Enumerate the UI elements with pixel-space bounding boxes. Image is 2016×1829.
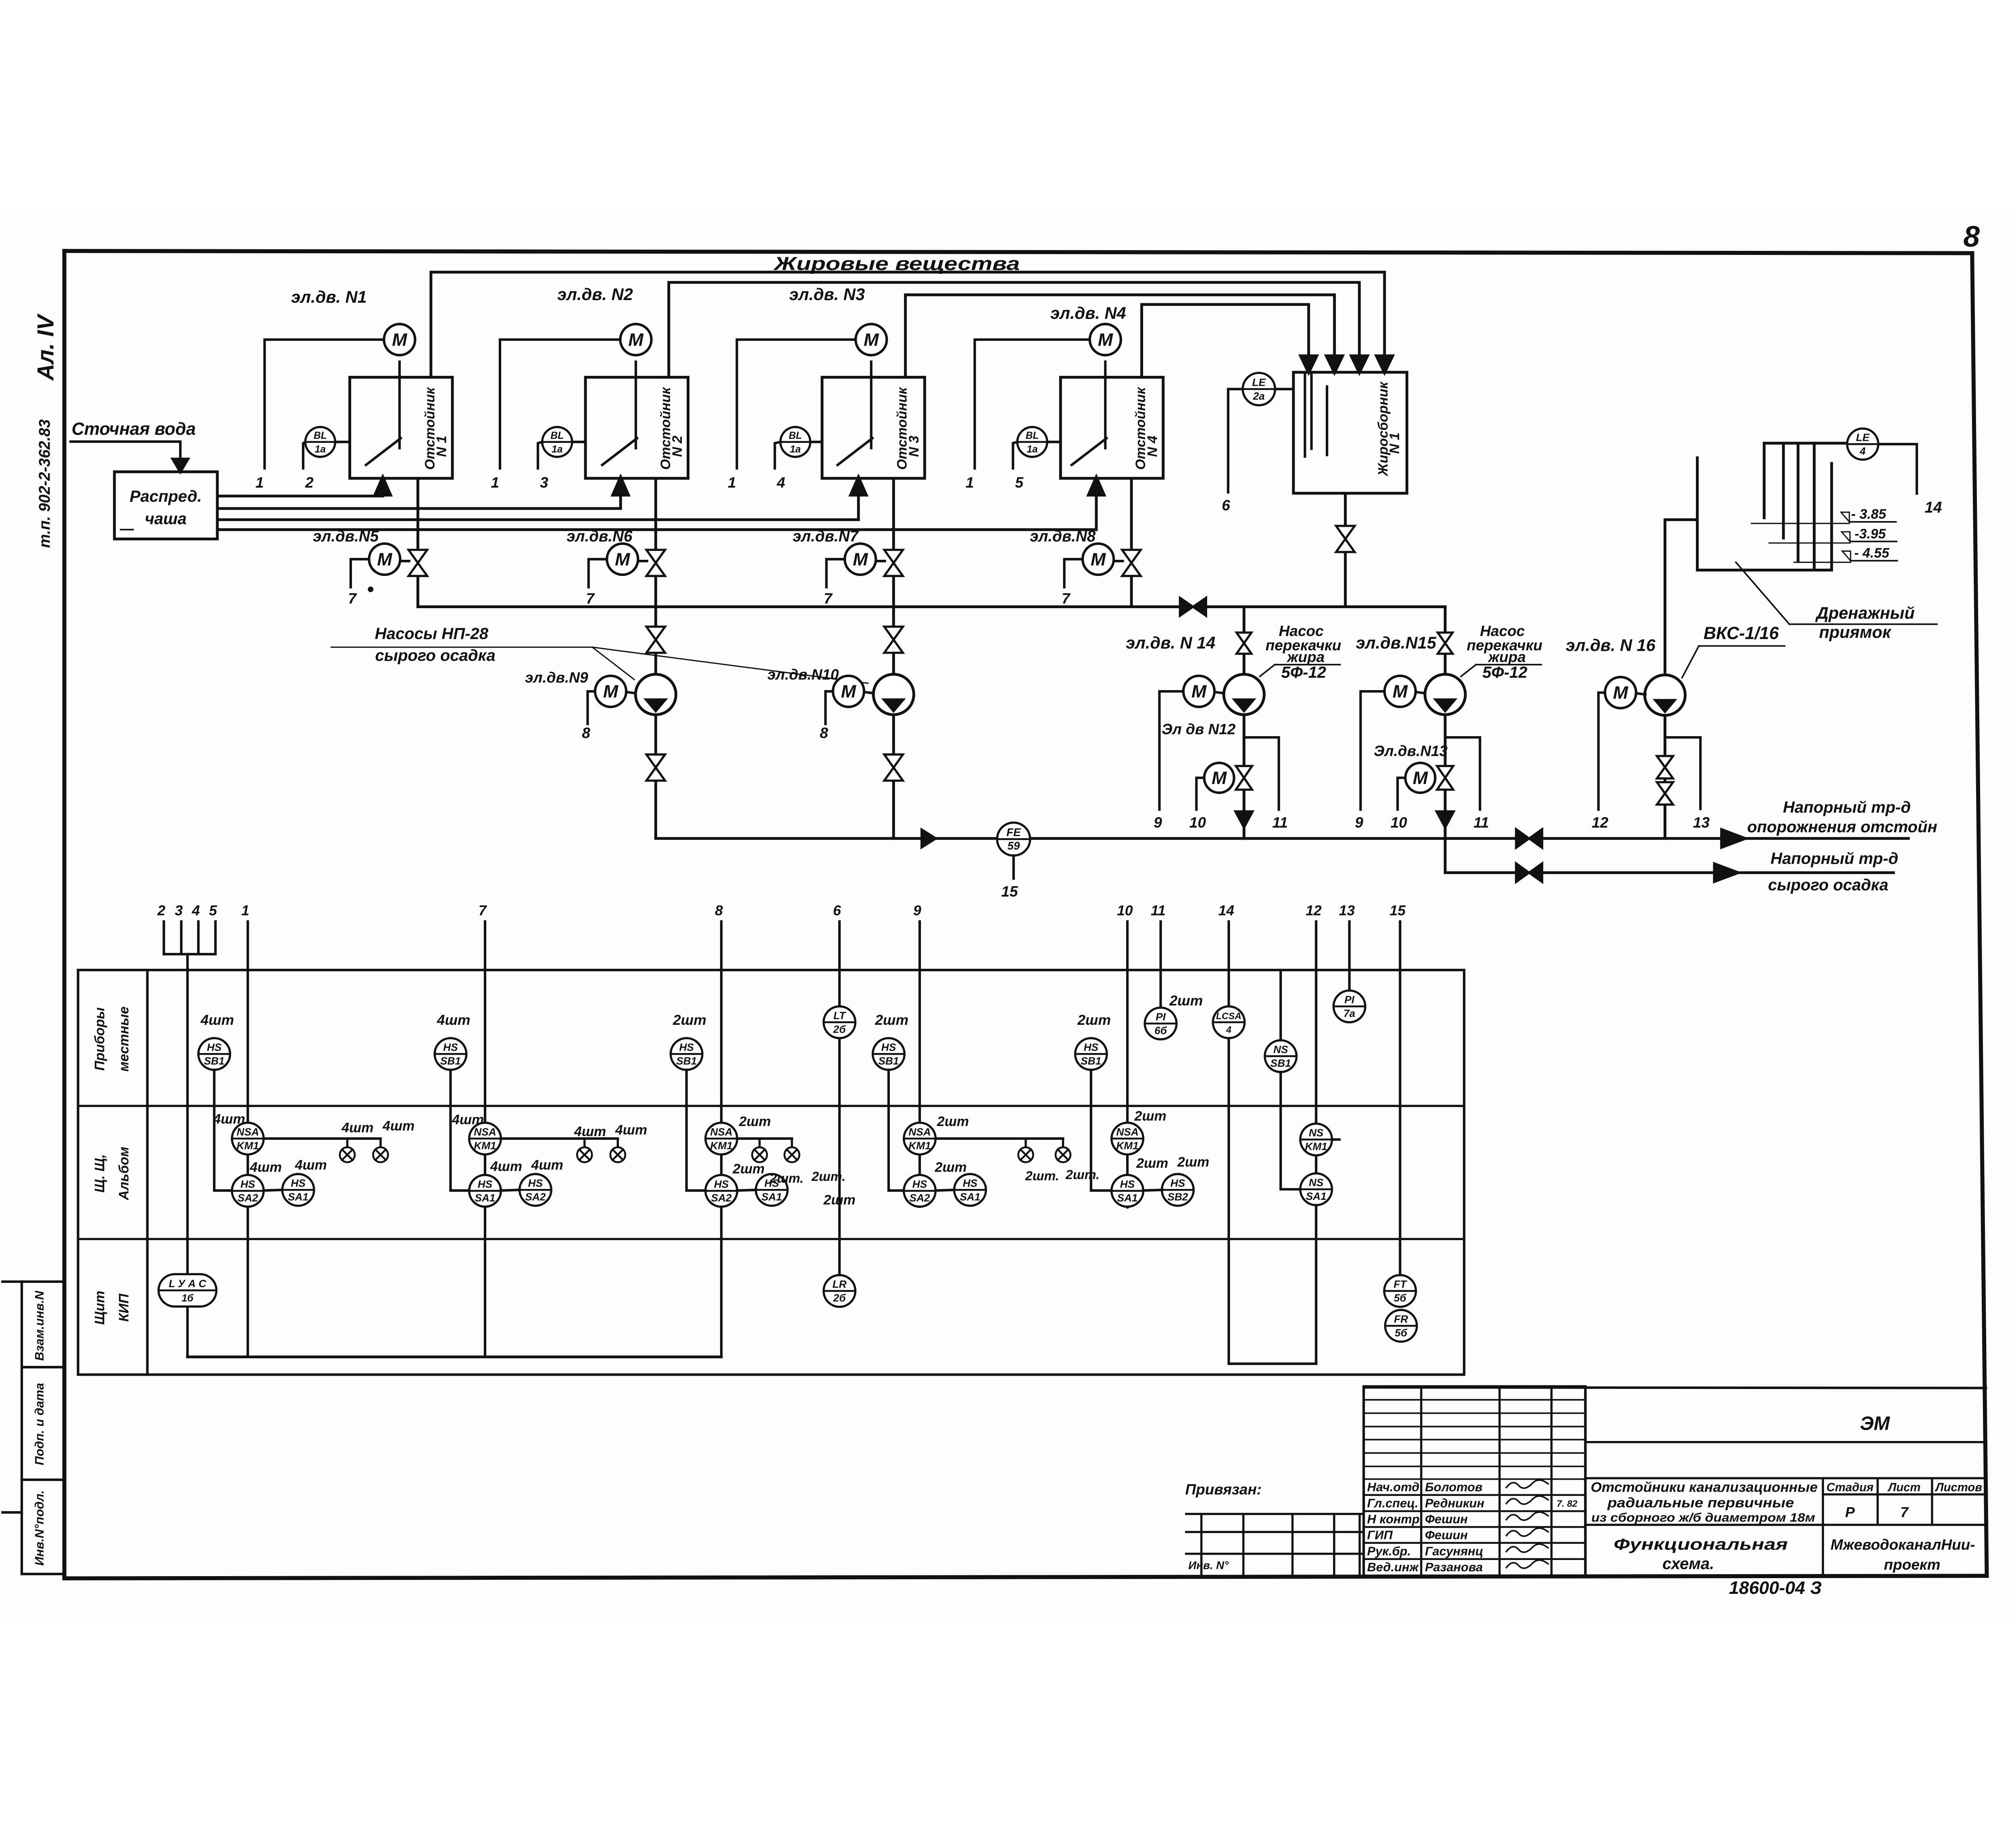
svg-text:6: 6	[833, 902, 841, 918]
svg-text:схема.: схема.	[1662, 1555, 1714, 1572]
svg-text:7: 7	[479, 902, 487, 918]
svg-text:2б: 2б	[833, 1023, 846, 1035]
grease pipe from tank N3 to collector	[906, 295, 1335, 377]
svg-text:11: 11	[1272, 814, 1288, 831]
discharge pipe of fat pump N14	[1242, 715, 1246, 838]
level element LE/4	[1847, 429, 1878, 460]
settling tank Отстойник N1	[350, 377, 452, 478]
svg-text:2шт.: 2шт.	[1025, 1168, 1059, 1183]
suction pipe of pump N9	[654, 607, 658, 674]
wire from motor 15 to lead 9	[1360, 691, 1384, 809]
svg-text:KM1: KM1	[1116, 1139, 1138, 1151]
svg-text:5б: 5б	[1395, 1327, 1408, 1339]
svg-text:2шт: 2шт	[1177, 1155, 1209, 1170]
svg-text:2шт: 2шт	[739, 1114, 771, 1129]
wire from motor 2 to lead 1	[500, 340, 620, 468]
svg-text:14: 14	[1924, 499, 1942, 516]
svg-text:M: M	[853, 550, 868, 569]
svg-text:SA1: SA1	[475, 1192, 495, 1204]
svg-text:5: 5	[209, 902, 217, 918]
svg-text:11: 11	[1151, 902, 1166, 918]
svg-text:4: 4	[1226, 1024, 1231, 1035]
svg-text:2шт: 2шт	[935, 1160, 967, 1175]
check valve on manifold	[1516, 829, 1529, 848]
svg-text:KM1: KM1	[710, 1139, 732, 1151]
svg-text:проект: проект	[1884, 1556, 1940, 1573]
lead 15 stub	[1012, 855, 1015, 878]
switch HS/SA1	[954, 1174, 986, 1206]
svg-text:M: M	[615, 550, 631, 569]
drop wire from NS/SB1	[1281, 1072, 1300, 1189]
motor эл.дв.N15	[1385, 676, 1416, 707]
svg-text:Взам.инв.N: Взам.инв.N	[32, 1291, 46, 1361]
scraper drive shaft inside tank N4	[1104, 362, 1107, 448]
svg-text:11: 11	[1473, 814, 1489, 831]
fat pump 5Ф-12 N15	[1425, 674, 1465, 715]
svg-text:Жиросборник: Жиросборник	[1376, 381, 1391, 477]
lead 15	[1398, 922, 1402, 1276]
extra stub to NS/SB1	[1279, 970, 1282, 1040]
svg-text:M: M	[864, 330, 879, 350]
svg-text:- 3.85: - 3.85	[1851, 507, 1887, 522]
feed pipe to tank N4	[217, 495, 1096, 530]
leader to pump 9	[592, 647, 634, 680]
svg-text:4шт: 4шт	[452, 1112, 484, 1128]
svg-text:Ал. IV: Ал. IV	[33, 313, 59, 381]
discharge valve with motor N13	[1437, 766, 1453, 778]
level switch LCSA/4	[1213, 1006, 1245, 1038]
svg-text:9: 9	[913, 902, 921, 918]
svg-text:опорожнения отстойн: опорожнения отстойн	[1747, 818, 1937, 836]
grease pipe from tank N4 to collector	[1142, 304, 1309, 377]
fold tick marks	[2, 1280, 22, 1283]
svg-text:SB1: SB1	[1270, 1057, 1291, 1069]
svg-text:NSA: NSA	[710, 1126, 732, 1138]
svg-text:7: 7	[1900, 1504, 1909, 1520]
svg-text:Фешин: Фешин	[1425, 1528, 1468, 1542]
discharge valves of ВКС pump	[1657, 756, 1673, 767]
signal lamp	[616, 1139, 619, 1147]
switch HS/SA2	[520, 1174, 552, 1206]
svg-text:M: M	[1613, 683, 1629, 703]
svg-text:LE: LE	[1252, 376, 1266, 388]
drain pipe from tank N1	[416, 478, 420, 607]
lead 10	[1126, 922, 1129, 1208]
panel bus in КИП row	[187, 1355, 721, 1359]
svg-text:чаша: чаша	[145, 510, 187, 528]
svg-text:Отстойник: Отстойник	[658, 387, 673, 470]
svg-text:ГИП: ГИП	[1367, 1528, 1393, 1542]
wire from BL to lead 2	[303, 442, 305, 469]
lead 11	[1159, 922, 1162, 1007]
svg-text:BL: BL	[1026, 430, 1039, 441]
settling tank Отстойник N4	[1060, 377, 1163, 478]
wire from motor 9 to lead 8	[587, 691, 595, 724]
drain valve of tank N1	[408, 550, 427, 563]
svg-text:7: 7	[824, 590, 833, 607]
svg-text:M: M	[628, 330, 644, 350]
bypass wire to lead 11	[1244, 737, 1279, 809]
wire from LE/2a to lead 6	[1228, 389, 1243, 492]
feed pipe to tank N3	[217, 495, 858, 520]
svg-text:2шт: 2шт	[673, 1012, 706, 1028]
svg-text:KM1: KM1	[1305, 1141, 1327, 1153]
svg-text:HS: HS	[207, 1041, 222, 1053]
outlet arrow	[1721, 829, 1746, 848]
starter NSA/KM1	[706, 1123, 737, 1155]
motor эл.дв.N1	[384, 324, 415, 355]
svg-text:9: 9	[1154, 814, 1162, 831]
svg-text:Гл.спец.: Гл.спец.	[1367, 1496, 1418, 1510]
svg-text:SA1: SA1	[960, 1191, 980, 1203]
svg-text:Н контр.: Н контр.	[1367, 1512, 1423, 1526]
wire from motor 13 to lead 10	[1397, 778, 1405, 810]
svg-text:M: M	[1091, 550, 1106, 569]
svg-text:4шт: 4шт	[213, 1112, 245, 1127]
lead 8	[720, 922, 723, 1357]
discharge arrow	[1437, 811, 1454, 828]
svg-text:HS: HS	[478, 1178, 493, 1190]
svg-text:радиальные первичные: радиальные первичные	[1607, 1495, 1794, 1511]
sheet frame border	[62, 251, 67, 1578]
svg-text:7. 82: 7. 82	[1557, 1498, 1578, 1509]
svg-text:7a: 7a	[1343, 1007, 1355, 1020]
svg-text:жира: жира	[1286, 649, 1325, 665]
motor эл.дв.N14	[1183, 676, 1214, 707]
svg-text:Отстойник: Отстойник	[895, 387, 910, 470]
lead 9	[918, 922, 921, 1207]
svg-text:BL: BL	[550, 430, 564, 441]
svg-text:эл.дв. N3: эл.дв. N3	[789, 285, 865, 304]
svg-text:Рук.бр.: Рук.бр.	[1367, 1544, 1411, 1558]
svg-text:1: 1	[966, 474, 974, 491]
svg-text:PI: PI	[1156, 1011, 1166, 1023]
svg-text:1: 1	[242, 902, 250, 918]
svg-text:Дренажный: Дренажный	[1815, 603, 1915, 622]
level switch BL/1a of tank N4	[1017, 427, 1047, 457]
svg-text:эл.дв.N6: эл.дв.N6	[566, 528, 633, 545]
level switch BL/1a of tank N3	[781, 427, 810, 457]
svg-text:Эл дв N12: Эл дв N12	[1162, 721, 1236, 738]
drop wire from SB1	[450, 1070, 469, 1191]
svg-text:Функциональная: Функциональная	[1614, 1536, 1788, 1554]
row line 2	[78, 1238, 1464, 1241]
signal lamp	[346, 1139, 349, 1147]
svg-text:3: 3	[175, 902, 183, 918]
svg-text:HS: HS	[240, 1178, 255, 1190]
svg-text:Напорный тр-д: Напорный тр-д	[1783, 799, 1911, 816]
discharge pipe of pump N10	[892, 715, 896, 838]
svg-text:HS: HS	[714, 1178, 729, 1190]
svg-text:N 2: N 2	[670, 436, 685, 457]
svg-text:эл.дв. N1: эл.дв. N1	[291, 287, 367, 306]
raw sludge pressure line	[1446, 871, 1893, 874]
level switch BL/1a of tank N1	[305, 427, 335, 457]
drain valve of tank N4	[1122, 550, 1141, 563]
lamp wire	[501, 1137, 618, 1140]
svg-text:4шт: 4шт	[382, 1118, 414, 1134]
electrodes	[1762, 443, 1766, 518]
svg-text:M: M	[377, 550, 393, 569]
svg-text:4шт: 4шт	[574, 1124, 606, 1139]
motor эл.дв.N3	[856, 324, 887, 355]
leader to pump 10	[592, 647, 868, 683]
svg-text:Болотов: Болотов	[1425, 1480, 1483, 1494]
panel instrument LYAC/1б	[158, 1274, 216, 1306]
valve motor эл.дв.N7	[845, 544, 876, 575]
svg-text:сырого осадка: сырого осадка	[1768, 876, 1888, 894]
svg-text:2a: 2a	[1253, 390, 1265, 402]
suction valve of pump N10	[884, 627, 903, 640]
svg-text:1: 1	[256, 474, 264, 491]
svg-text:13: 13	[1693, 814, 1710, 831]
svg-text:из сборного ж/б диаметром 18м: из сборного ж/б диаметром 18м	[1591, 1510, 1815, 1525]
level element LE/2a	[1243, 373, 1275, 405]
svg-text:HS: HS	[291, 1177, 306, 1189]
svg-text:Р: Р	[1845, 1504, 1855, 1520]
bypass wire to lead 11	[1445, 737, 1480, 809]
electrode lead to 14	[1878, 444, 1917, 494]
starter NSA/KM1	[904, 1123, 936, 1155]
motor эл.дв.N4	[1090, 324, 1121, 355]
svg-text:Подп. и дата: Подп. и дата	[32, 1383, 46, 1465]
svg-text:12: 12	[1592, 814, 1609, 831]
svg-text:SA1: SA1	[1306, 1190, 1327, 1202]
svg-text:NSA: NSA	[474, 1126, 496, 1138]
sludge pump НП-28 N10	[873, 674, 914, 715]
svg-text:2шт: 2шт	[1136, 1156, 1168, 1171]
wire from motor 7 to lead 7	[827, 559, 845, 587]
svg-text:2шт: 2шт	[1169, 993, 1203, 1009]
svg-text:SA1: SA1	[1117, 1192, 1138, 1204]
svg-text:PI: PI	[1344, 994, 1354, 1006]
lead 13	[1348, 922, 1351, 990]
svg-text:HS: HS	[679, 1041, 694, 1053]
discharge valve of pump N9	[646, 755, 665, 767]
svg-text:15: 15	[1001, 883, 1018, 900]
svg-text:2шт.: 2шт.	[769, 1171, 804, 1186]
svg-text:1: 1	[491, 474, 499, 491]
svg-text:HS: HS	[1120, 1178, 1135, 1190]
svg-text:FT: FT	[1393, 1278, 1407, 1290]
suction valve of fat pump N14	[1237, 632, 1252, 643]
svg-text:Отстойники канализационные: Отстойники канализационные	[1591, 1480, 1818, 1495]
svg-text:5Ф-12: 5Ф-12	[1483, 663, 1528, 681]
svg-text:8: 8	[1963, 220, 1980, 253]
fat pump 5Ф-12 N14	[1224, 674, 1264, 715]
drop wire from SB1	[1091, 1070, 1112, 1191]
svg-text:2шт: 2шт	[823, 1193, 855, 1208]
svg-text:4: 4	[777, 474, 785, 491]
svg-text:эл.дв.N9: эл.дв.N9	[525, 669, 588, 686]
svg-text:NSA: NSA	[1116, 1126, 1138, 1138]
svg-text:HS: HS	[881, 1041, 896, 1053]
distribution bowl Распред. чаша	[115, 472, 217, 539]
signal lamp	[758, 1139, 761, 1147]
svg-text:Стадия: Стадия	[1826, 1481, 1874, 1494]
discharge valve with motor N12	[1236, 766, 1252, 778]
svg-text:2шт.: 2шт.	[811, 1169, 846, 1184]
sludge pump НП-28 N9	[635, 674, 676, 715]
signal lamp	[379, 1139, 382, 1147]
svg-text:2шт: 2шт	[937, 1114, 969, 1129]
svg-text:7: 7	[586, 590, 595, 607]
svg-text:эл.дв. N 14: эл.дв. N 14	[1126, 633, 1215, 652]
svg-text:NS: NS	[1309, 1127, 1324, 1139]
svg-text:10: 10	[1117, 902, 1133, 918]
lead 14	[1227, 922, 1231, 1364]
svg-text:N 4: N 4	[1145, 436, 1160, 457]
drop wire from SB1	[214, 1070, 232, 1191]
svg-text:7: 7	[348, 590, 357, 607]
pressure manifold опорожнения отстойников	[656, 836, 1908, 840]
svg-text:2шт.: 2шт.	[1065, 1167, 1100, 1182]
svg-text:SB2: SB2	[1168, 1191, 1188, 1203]
svg-text:M: M	[392, 330, 408, 350]
svg-text:4шт: 4шт	[200, 1012, 234, 1028]
lamp wire	[935, 1137, 1063, 1140]
level mark -3.85	[1752, 523, 1849, 524]
svg-text:КИП: КИП	[116, 1293, 131, 1322]
svg-text:4: 4	[192, 902, 200, 918]
svg-text:18600-04 З: 18600-04 З	[1729, 1578, 1822, 1598]
svg-text:2шт: 2шт	[732, 1161, 764, 1176]
signal lamp	[583, 1139, 586, 1147]
svg-text:2: 2	[157, 902, 165, 918]
wire from BL to lead 5	[1013, 442, 1017, 469]
svg-text:8: 8	[582, 724, 590, 741]
svg-text:SB1: SB1	[676, 1055, 697, 1067]
bypass wire to lead 13	[1665, 737, 1700, 809]
svg-text:8: 8	[820, 724, 828, 741]
outlet arrow 2	[1714, 863, 1739, 882]
svg-text:5Ф-12: 5Ф-12	[1281, 663, 1327, 681]
svg-text:МжеводоканалНии-: МжеводоканалНии-	[1831, 1536, 1975, 1553]
svg-text:LT: LT	[833, 1009, 846, 1022]
drain pipe from tank N2	[654, 478, 658, 607]
svg-text:M: M	[1212, 768, 1227, 788]
svg-text:Лист: Лист	[1887, 1481, 1920, 1494]
instrument table frame	[78, 970, 1464, 1374]
wire from motor 12 to lead 10	[1196, 778, 1204, 810]
svg-text:4шт: 4шт	[250, 1160, 282, 1175]
lead 1	[246, 922, 250, 1357]
svg-text:6б: 6б	[1154, 1024, 1167, 1037]
svg-text:Редникин: Редникин	[1425, 1496, 1485, 1510]
valve motor эл.дв.N6	[607, 544, 638, 575]
svg-text:10: 10	[1391, 814, 1408, 831]
motor эл.дв.N9	[595, 676, 626, 707]
svg-text:7: 7	[1062, 590, 1071, 607]
svg-text:SB1: SB1	[204, 1055, 225, 1067]
svg-text:т.п. 902-2-362.83: т.п. 902-2-362.83	[36, 419, 53, 548]
suction valve of pump N9	[646, 627, 665, 640]
inventory strip table	[1186, 1512, 1364, 1515]
flow recorder FR/5б	[1385, 1310, 1417, 1342]
svg-text:SA2: SA2	[910, 1192, 930, 1204]
grease collector Жиросборник N1	[1293, 372, 1407, 493]
svg-text:BL: BL	[789, 430, 802, 441]
lamp wire	[264, 1137, 381, 1140]
manifold isolating valve	[1180, 598, 1193, 616]
level switch BL/1a of tank N2	[542, 427, 572, 457]
switch HS/SA1	[282, 1174, 314, 1206]
svg-text:KM1: KM1	[908, 1139, 931, 1151]
level transmitter LT/2б	[824, 1006, 856, 1038]
drainage pit walls	[1697, 458, 1832, 570]
svg-text:6: 6	[1222, 496, 1230, 513]
motor эл.дв.N2	[620, 324, 651, 355]
svg-text:HS: HS	[963, 1177, 978, 1189]
signal lamp	[1062, 1139, 1064, 1147]
svg-text:13: 13	[1339, 902, 1355, 918]
svg-text:-3.95: -3.95	[1855, 526, 1886, 542]
flow arrow	[922, 830, 936, 848]
svg-text:Инв.N°подл.: Инв.N°подл.	[32, 1490, 46, 1566]
motor эл.дв.N16	[1605, 677, 1636, 708]
starter NS/KM1	[1300, 1124, 1332, 1155]
svg-text:15: 15	[1389, 902, 1406, 918]
svg-text:- 4.55: - 4.55	[1854, 546, 1890, 561]
svg-text:5б: 5б	[1394, 1292, 1407, 1304]
svg-text:Напорный тр-д: Напорный тр-д	[1770, 850, 1898, 868]
svg-text:ЭМ: ЭМ	[1860, 1413, 1890, 1435]
svg-text:SA1: SA1	[761, 1191, 782, 1203]
svg-text:HS: HS	[912, 1178, 927, 1190]
svg-text:Отстойник: Отстойник	[422, 387, 437, 470]
svg-text:SB1: SB1	[440, 1055, 461, 1067]
svg-text:эл.дв. N 16: эл.дв. N 16	[1566, 636, 1656, 655]
svg-text:3: 3	[540, 474, 548, 491]
svg-text:4шт: 4шт	[341, 1120, 373, 1136]
flow element FE/59	[997, 823, 1030, 856]
check valve on raw sludge line	[1516, 863, 1529, 882]
switch HS/SA2	[904, 1175, 936, 1207]
title block right section	[1364, 1387, 1986, 1388]
svg-text:10: 10	[1189, 814, 1206, 831]
svg-text:эл.дв.N5: эл.дв.N5	[313, 528, 379, 545]
svg-text:NS: NS	[1273, 1043, 1288, 1055]
svg-text:2б: 2б	[833, 1292, 846, 1304]
wire from BL to lead 3	[538, 442, 542, 469]
wire from BL to lead 4	[775, 442, 781, 469]
svg-text:KM1: KM1	[474, 1139, 496, 1151]
switch HS/SA1	[469, 1175, 501, 1207]
svg-text:M: M	[1191, 682, 1207, 702]
lead 7	[483, 922, 487, 1357]
drop wire from SB1	[889, 1070, 904, 1191]
svg-text:HS: HS	[1084, 1041, 1099, 1053]
svg-text:Эл.дв.N13: Эл.дв.N13	[1374, 742, 1448, 759]
switch HS/SB2	[1162, 1174, 1194, 1206]
svg-text:M: M	[603, 682, 619, 702]
svg-text:N 1: N 1	[434, 436, 450, 457]
svg-text:1a: 1a	[790, 444, 801, 455]
suction riser of fat pump N14	[1242, 607, 1246, 674]
svg-text:M: M	[841, 682, 857, 702]
svg-text:4шт: 4шт	[531, 1157, 563, 1173]
svg-text:SA1: SA1	[288, 1191, 308, 1203]
wire from motor 6 to lead 7	[589, 559, 607, 587]
svg-text:местные: местные	[116, 1007, 131, 1072]
flow transmitter FT/5б	[1384, 1275, 1416, 1307]
svg-text:жира: жира	[1487, 649, 1526, 665]
sludge suction manifold	[418, 605, 1445, 609]
svg-text:1б: 1б	[181, 1293, 194, 1304]
suction valve of fat pump N15	[1438, 632, 1453, 643]
discharge pipe of fat pump N15	[1443, 715, 1447, 873]
svg-text:LCSA: LCSA	[1216, 1011, 1241, 1021]
